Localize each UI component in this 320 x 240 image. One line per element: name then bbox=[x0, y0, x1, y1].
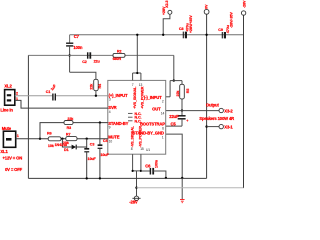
svg-text:10: 10 bbox=[109, 139, 113, 143]
capacitor C4 10uF bbox=[98, 121, 110, 178]
svg-text:9: 9 bbox=[109, 126, 111, 130]
svg-text:Mute: Mute bbox=[2, 126, 12, 131]
wire C7 to ground line bbox=[69, 46, 71, 72]
svg-text:0V = OFF: 0V = OFF bbox=[5, 167, 23, 172]
wire bootstrap to pin6 bbox=[166, 125, 182, 127]
resistor R5 feedback 22k bbox=[176, 81, 190, 111]
terminal X2-2 GND bbox=[204, 4, 209, 14]
node IN- bbox=[173, 79, 175, 81]
wire -V stem bbox=[136, 171, 138, 196]
resistor R3 bbox=[64, 117, 74, 130]
svg-text:C2: C2 bbox=[82, 60, 87, 64]
node -V bus bbox=[135, 187, 137, 189]
svg-text:+VS_SIGNAL: +VS_SIGNAL bbox=[133, 86, 137, 109]
resistor R7 20k bbox=[63, 132, 77, 145]
svg-text:C5: C5 bbox=[171, 121, 177, 126]
svg-text:C1: C1 bbox=[46, 90, 51, 94]
connector XL1 Mute bbox=[0, 126, 22, 172]
svg-text:(-)_INPUT: (-)_INPUT bbox=[144, 95, 162, 100]
wire bottom supply pins bbox=[133, 154, 141, 171]
svg-text:R2: R2 bbox=[117, 50, 122, 54]
diode D1 1N4148 bbox=[55, 138, 87, 152]
wire line-in signal bbox=[15, 95, 53, 97]
svg-text:0V: 0V bbox=[204, 4, 208, 9]
svg-text:Speakers 100W 4R: Speakers 100W 4R bbox=[199, 116, 234, 121]
IC U1 box bbox=[108, 80, 166, 154]
svg-text:1N4148: 1N4148 bbox=[55, 143, 67, 147]
svg-text:C8: C8 bbox=[179, 27, 184, 31]
svg-text:R3: R3 bbox=[67, 126, 72, 130]
capacitor C6 100n bbox=[141, 159, 166, 178]
svg-text:10uF: 10uF bbox=[100, 153, 109, 157]
svg-text:1: 1 bbox=[162, 135, 164, 139]
terminal X2-3 +V bbox=[162, 0, 172, 36]
terminal X2-1 -V bbox=[229, 0, 246, 28]
svg-text:+: + bbox=[186, 119, 188, 123]
capacitor C7 bbox=[66, 34, 83, 50]
wire top supply bus bbox=[70, 34, 244, 36]
ground symbol bbox=[180, 200, 185, 203]
svg-text:7: 7 bbox=[132, 83, 134, 87]
svg-text:15: 15 bbox=[140, 147, 144, 151]
wire STBY-GND pin to ground bus bbox=[166, 134, 183, 199]
svg-text:C3: C3 bbox=[90, 143, 95, 147]
node C7 gnd junction bbox=[68, 54, 70, 56]
wire C7 riser bbox=[69, 35, 71, 43]
svg-text:U1: U1 bbox=[146, 148, 150, 152]
node stem-bus bbox=[136, 34, 138, 36]
svg-text:XL2: XL2 bbox=[4, 84, 12, 89]
wire top supply stem bbox=[133, 35, 141, 81]
resistor R2 bbox=[113, 50, 125, 62]
svg-text:D1: D1 bbox=[64, 148, 69, 152]
capacitor C2 bbox=[82, 52, 100, 64]
svg-text:10uF: 10uF bbox=[88, 157, 97, 161]
svg-text:14: 14 bbox=[161, 111, 165, 115]
svg-text:22k: 22k bbox=[176, 90, 180, 97]
connector XL2 Line In bbox=[0, 84, 18, 113]
svg-text:STAND-BY_GND: STAND-BY_GND bbox=[133, 130, 164, 135]
svg-text:STAND-BY: STAND-BY bbox=[108, 121, 128, 126]
node mute branch bbox=[39, 138, 41, 140]
svg-text:Line In: Line In bbox=[0, 108, 13, 113]
svg-text:470u: 470u bbox=[226, 24, 230, 33]
wire right gnd vertical bbox=[206, 14, 208, 178]
svg-text:-VS_SIGNAL: -VS_SIGNAL bbox=[130, 125, 134, 147]
svg-text:C9: C9 bbox=[218, 28, 223, 32]
svg-text:1: 1 bbox=[17, 134, 19, 138]
svg-text:-28V: -28V bbox=[242, 0, 246, 8]
svg-text:R7: R7 bbox=[66, 132, 71, 136]
svg-text:2: 2 bbox=[16, 92, 18, 96]
wire mute rail bbox=[16, 138, 49, 140]
svg-text:XL1: XL1 bbox=[0, 149, 8, 154]
terminal X3-2 output bbox=[206, 102, 233, 113]
wire OUT line bbox=[166, 110, 219, 112]
wire IN- stub bbox=[166, 96, 170, 98]
capacitor C1 bbox=[46, 83, 58, 100]
svg-text:100n: 100n bbox=[73, 45, 83, 50]
capacitor C8 bbox=[179, 23, 189, 39]
svg-text:2: 2 bbox=[162, 99, 164, 103]
svg-text:680R: 680R bbox=[113, 57, 122, 61]
svg-text:22u: 22u bbox=[94, 59, 101, 63]
wire -V bus bbox=[137, 15, 244, 188]
svg-text:+VS_POWER: +VS_POWER bbox=[141, 86, 145, 109]
wire ground feedback line y55 bbox=[28, 54, 113, 56]
svg-text:4: 4 bbox=[109, 110, 111, 114]
svg-text:13: 13 bbox=[139, 83, 143, 87]
svg-text:8: 8 bbox=[131, 147, 133, 151]
svg-text:R5: R5 bbox=[186, 89, 190, 94]
svg-text:+28V: +28V bbox=[162, 6, 166, 15]
wire ground bus bbox=[28, 177, 206, 179]
node R5/OUT bbox=[181, 109, 183, 111]
svg-text:X3-1: X3-1 bbox=[224, 125, 233, 130]
svg-text:X3-2: X3-2 bbox=[224, 109, 233, 114]
svg-text:-28V: -28V bbox=[129, 200, 138, 205]
capacitor C3 10uF bbox=[84, 138, 96, 179]
svg-text:C6: C6 bbox=[145, 164, 151, 169]
svg-text:C7: C7 bbox=[74, 34, 80, 39]
svg-text:R6: R6 bbox=[47, 131, 52, 135]
svg-text:-VS_POWER: -VS_POWER bbox=[139, 126, 143, 148]
N.C. pins bbox=[128, 112, 142, 124]
svg-text:22k: 22k bbox=[89, 83, 93, 90]
capacitor C9 bbox=[218, 24, 230, 38]
node stbygnd-bus bbox=[181, 177, 183, 179]
svg-text:(+)_INPUT: (+)_INPUT bbox=[109, 93, 128, 98]
wire feedback drop to IN- node bbox=[173, 55, 175, 80]
svg-text:22uF: 22uF bbox=[169, 114, 179, 119]
resistor R6 10k bbox=[47, 131, 61, 148]
svg-text:470u: 470u bbox=[185, 23, 189, 32]
wire IN- riser bbox=[169, 81, 171, 97]
wire IN- node horizontal bbox=[170, 80, 182, 82]
svg-text:100n: 100n bbox=[155, 159, 159, 168]
svg-text:N.C.: N.C. bbox=[135, 119, 142, 123]
svg-text:3: 3 bbox=[109, 98, 111, 102]
wire stby rail A bbox=[40, 123, 64, 139]
capacitor C5 bootstrap 22uF bbox=[169, 111, 188, 127]
svg-text:Output: Output bbox=[206, 102, 220, 107]
resistor R4 22k input bias bbox=[70, 72, 103, 96]
terminal -28V bbox=[129, 196, 140, 204]
terminal X3-1 speaker return bbox=[199, 116, 234, 129]
wire left ground vertical bbox=[27, 55, 29, 178]
svg-text:+12V = ON: +12V = ON bbox=[3, 156, 23, 161]
wire line-in gnd jog bbox=[15, 100, 108, 108]
svg-text:+28V/+35V: +28V/+35V bbox=[189, 15, 193, 33]
